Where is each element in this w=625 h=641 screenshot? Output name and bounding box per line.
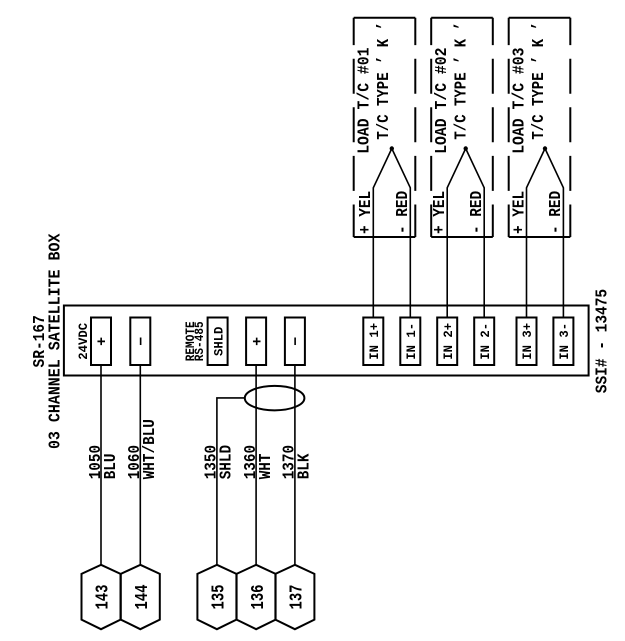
junction dot T/C #01	[390, 146, 394, 150]
svg-text:IN 1+: IN 1+	[367, 323, 382, 360]
svg-text:+ YEL: + YEL	[509, 191, 528, 234]
svg-text:IN 2-: IN 2-	[478, 323, 493, 360]
svg-text:SHLD: SHLD	[211, 326, 226, 356]
svg-text:143: 143	[94, 584, 114, 609]
wire label 1360 WHT	[241, 445, 275, 479]
svg-text:03 CHANNEL SATELLITE BOX: 03 CHANNEL SATELLITE BOX	[45, 233, 64, 449]
wire 1060 WHT/BLU	[139, 365, 141, 565]
wire T/C #02 YEL lead	[447, 149, 466, 318]
T/C #01 enclosure (dashed box)	[354, 18, 416, 237]
satellite box outline	[64, 306, 589, 376]
svg-text:T/C TYPE ’ K ’: T/C TYPE ’ K ’	[374, 22, 393, 140]
svg-text:BLU: BLU	[101, 454, 120, 480]
terminal - at x=140.3	[130, 318, 150, 366]
svg-text:IN 2+: IN 2+	[441, 323, 456, 360]
terminal lug 135 (hexagon)	[197, 565, 236, 629]
terminal IN 3+ at x=526.5	[517, 318, 537, 366]
svg-text:24VDC: 24VDC	[76, 323, 91, 360]
terminal IN 2+ at x=447.2	[437, 318, 457, 366]
wire 1050 BLU	[100, 365, 102, 565]
svg-text:WHT: WHT	[256, 453, 275, 479]
svg-text:+: +	[249, 337, 266, 346]
svg-text:- RED: - RED	[393, 191, 412, 234]
svg-text:+ YEL: + YEL	[356, 191, 375, 234]
svg-text:IN 3-: IN 3-	[557, 323, 572, 360]
terminal + at x=101.0	[91, 318, 111, 366]
wire T/C #01 YEL lead	[373, 149, 392, 318]
svg-text:IN 1-: IN 1-	[404, 323, 419, 360]
junction dot T/C #02	[464, 146, 468, 150]
wire label 1060 WHT/BLU	[125, 419, 159, 479]
svg-text:−: −	[134, 337, 151, 346]
svg-text:- RED: - RED	[467, 191, 486, 234]
terminal lug 137 (hexagon)	[275, 565, 314, 629]
svg-text:T/C TYPE ’ K ’: T/C TYPE ’ K ’	[452, 22, 471, 140]
svg-text:137: 137	[288, 584, 308, 609]
svg-text:IN 3+: IN 3+	[520, 323, 535, 360]
terminal lug 136 (hexagon)	[237, 565, 276, 629]
svg-text:RS-485: RS-485	[192, 321, 207, 361]
svg-text:136: 136	[249, 584, 269, 609]
terminal SHLD at x=217.6	[208, 318, 228, 366]
svg-text:+: +	[94, 337, 111, 346]
wire 1360 WHT	[255, 365, 257, 565]
junction dot T/C #03	[543, 146, 547, 150]
terminal IN 1+ at x=373.3	[363, 318, 383, 366]
terminal + at x=256.1	[246, 318, 266, 366]
terminal IN 1- at x=410.3	[400, 318, 420, 366]
wire T/C #01 RED lead	[392, 149, 411, 318]
wire label 1370 BLK	[280, 445, 314, 479]
wire 1350 SHLD drain	[217, 398, 245, 565]
svg-text:LOAD T/C #02: LOAD T/C #02	[432, 47, 451, 153]
svg-text:−: −	[288, 337, 305, 346]
terminal lug 144 (hexagon)	[121, 565, 160, 629]
wire T/C #02 RED lead	[466, 149, 485, 318]
svg-text:+ YEL: + YEL	[430, 191, 449, 234]
T/C #02 enclosure (dashed box)	[431, 18, 493, 237]
terminal IN 2- at x=484.2	[474, 318, 494, 366]
svg-text:LOAD T/C #03: LOAD T/C #03	[509, 47, 528, 153]
wire T/C #03 YEL lead	[527, 149, 546, 318]
wire label 1050 BLU	[86, 445, 120, 479]
svg-text:- RED: - RED	[546, 191, 565, 234]
terminal lug 143 (hexagon)	[82, 565, 121, 629]
svg-text:SSI# - 13475: SSI# - 13475	[593, 289, 612, 393]
svg-text:LOAD T/C #01: LOAD T/C #01	[354, 47, 373, 153]
svg-text:BLK: BLK	[295, 453, 314, 479]
svg-text:SHLD: SHLD	[217, 445, 236, 479]
terminal - at x=294.9	[285, 318, 305, 366]
cable shield ellipse	[245, 386, 305, 411]
T/C #03 enclosure (dashed box)	[509, 18, 571, 237]
label REMOTE RS-485	[183, 321, 207, 361]
wire label 1350 SHLD	[202, 445, 236, 479]
wire 1370 BLK	[294, 365, 296, 565]
terminal IN 3- at x=563.4	[553, 318, 573, 366]
wire T/C #03 RED lead	[545, 149, 563, 318]
svg-text:T/C TYPE ’ K ’: T/C TYPE ’ K ’	[529, 22, 548, 140]
svg-text:135: 135	[210, 584, 230, 609]
svg-text:WHT/BLU: WHT/BLU	[140, 419, 159, 479]
svg-text:144: 144	[133, 584, 153, 609]
